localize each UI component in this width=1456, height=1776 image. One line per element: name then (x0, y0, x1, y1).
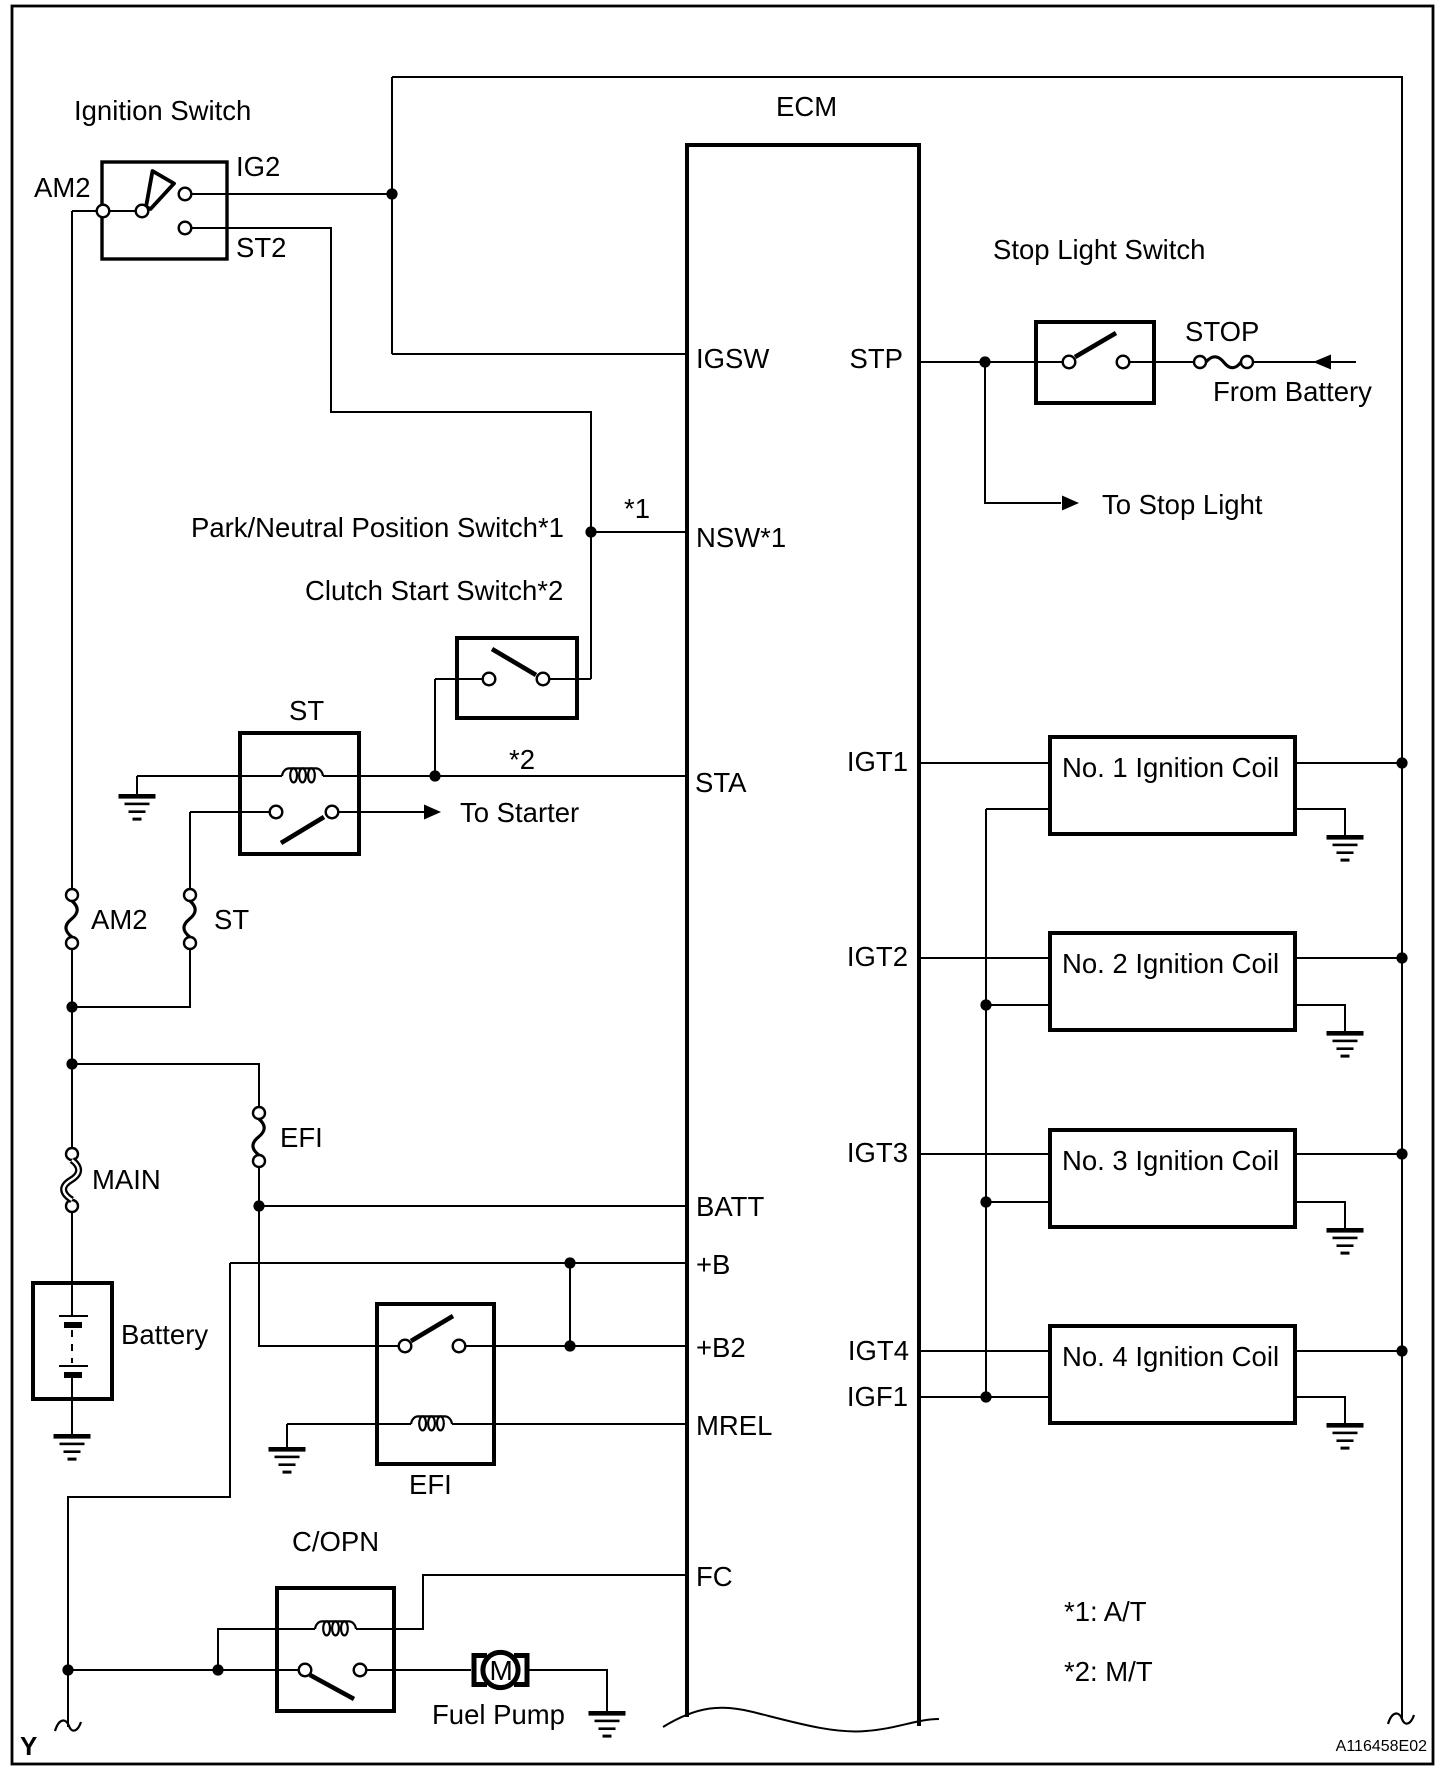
svg-text:A116458E02: A116458E02 (1336, 1738, 1427, 1755)
svg-text:FC: FC (696, 1561, 733, 1592)
svg-text:IGT4: IGT4 (848, 1335, 909, 1366)
ground battery (54, 1434, 91, 1461)
wire IGF1 pin (920, 1396, 1050, 1398)
node +B junction (564, 1257, 575, 1268)
fuse ST (184, 889, 196, 901)
svg-text:MREL: MREL (696, 1410, 772, 1441)
arrow To Starter (424, 805, 441, 820)
terminal C/OPN left circle (299, 1664, 312, 1677)
terminal IG2 circle (179, 188, 192, 201)
wire IGT2 pin (920, 957, 1050, 959)
wire IG2 to node (192, 193, 392, 195)
svg-text:BATT: BATT (696, 1191, 764, 1222)
ignition switch key wedge (146, 171, 174, 209)
wire +B return run (68, 1263, 230, 1727)
wire coil1 lower pin to IGF column (986, 808, 1050, 810)
svg-text:EFI: EFI (409, 1469, 452, 1500)
svg-text:Clutch Start Switch*2: Clutch Start Switch*2 (305, 575, 563, 606)
fuse AM2 (66, 889, 78, 901)
ECM box (687, 145, 919, 1726)
wire fuel pump to ground (529, 1670, 607, 1711)
svg-text:Park/Neutral Position Switch*1: Park/Neutral Position Switch*1 (191, 512, 564, 543)
wire C/OPN coil left lead (218, 1629, 315, 1670)
node bus coil3 (1396, 1148, 1407, 1159)
wire IGT3 pin (920, 1153, 1050, 1155)
wire +B pin (230, 1262, 686, 1264)
connector Y squiggle (55, 1721, 81, 1731)
connector bus squiggle (1388, 1714, 1414, 1724)
ECM wavy bottom (663, 1708, 939, 1732)
ST relay coil (282, 768, 323, 782)
C/OPN relay box (277, 1588, 394, 1711)
wire IGT1 pin (920, 762, 1050, 764)
wire coil1 to bus (1295, 762, 1402, 764)
ST relay blade (281, 817, 324, 843)
wire clutch switch right lead (550, 678, 591, 680)
node bus coil4 (1396, 1345, 1407, 1356)
svg-text:No. 4 Ignition Coil: No. 4 Ignition Coil (1062, 1341, 1279, 1372)
terminal ST2 circle (179, 222, 192, 235)
node BATT junction (253, 1200, 264, 1211)
battery plate short thick bottom (64, 1372, 82, 1378)
wire from battery feed (1253, 361, 1356, 363)
svg-text:ST2: ST2 (236, 232, 286, 263)
svg-text:STOP: STOP (1185, 316, 1259, 347)
clutch switch blade (492, 649, 536, 675)
wire AM2 column (71, 211, 73, 889)
wire BATT node down to EFI relay switch (259, 1206, 399, 1346)
wire STA left segment to ground (137, 775, 282, 777)
wire IGT4 pin (920, 1350, 1050, 1352)
svg-text:Battery: Battery (121, 1319, 208, 1350)
svg-text:IGT3: IGT3 (847, 1137, 908, 1168)
svg-text:IGT2: IGT2 (847, 941, 908, 972)
wire EFI fuse to BATT node (258, 1167, 260, 1206)
ignition coil 4 box (1050, 1326, 1295, 1423)
ground coil2 (1327, 1031, 1364, 1058)
terminal ST relay right circle (326, 806, 339, 819)
battery box (33, 1283, 112, 1399)
wire coil4 to bus (1295, 1350, 1402, 1352)
wire ST relay switch to ST fuse (189, 812, 191, 889)
svg-text:AM2: AM2 (34, 172, 91, 203)
terminal ST relay left circle (270, 806, 283, 819)
fuel pump motor M1 (474, 1656, 487, 1685)
wire FC run (356, 1575, 686, 1629)
node bus coil2 (1396, 952, 1407, 963)
svg-text:IGT1: IGT1 (847, 746, 908, 777)
wire ignition switch internal AM2 to pivot (109, 210, 136, 212)
ground coil3 (1327, 1228, 1364, 1255)
ignition coil 2 box (1050, 933, 1295, 1030)
svg-text:To Starter: To Starter (460, 797, 579, 828)
node STP junction (979, 356, 990, 367)
node fuse junction (66, 1001, 77, 1012)
ground EFI coil (269, 1447, 306, 1474)
wire coil3 lower pin (986, 1201, 1050, 1203)
svg-text:*1: *1 (624, 493, 650, 524)
fuse MAIN fusible link (66, 1148, 78, 1160)
fuse STOP (1194, 356, 1206, 368)
battery plate short thick top (64, 1322, 82, 1328)
svg-text:M: M (490, 1655, 513, 1686)
ST relay box (240, 733, 359, 854)
node IG2/IGSW junction (386, 188, 397, 199)
wire MAIN fuse to battery (71, 1212, 73, 1316)
svg-text:*2: *2 (509, 744, 535, 775)
C/OPN blade (310, 1675, 354, 1699)
node IGF coil4 (980, 1391, 991, 1402)
node +B2 junction (564, 1340, 575, 1351)
wire coil1 ground lead (1295, 809, 1345, 835)
EFI relay coil (411, 1416, 452, 1430)
node C/OPN junction (212, 1664, 223, 1675)
wire AM2 terminal to battery column (72, 210, 97, 212)
arrow to stop light (1062, 496, 1079, 511)
wire MREL pin (452, 1423, 686, 1425)
terminal stop light left circle (1063, 356, 1076, 369)
wire coil3 ground lead (1295, 1202, 1345, 1228)
node NSW junction (585, 526, 596, 537)
svg-text:*2: M/T: *2: M/T (1064, 1656, 1153, 1687)
svg-text:Y: Y (20, 1731, 37, 1761)
wire coil4 ground lead (1295, 1397, 1345, 1423)
wire AM2 fuse to junction (71, 949, 73, 1148)
C/OPN coil (315, 1621, 356, 1635)
svg-text:+B2: +B2 (696, 1332, 746, 1363)
svg-text:ST: ST (214, 904, 249, 935)
wire +B to +B2 link (569, 1263, 571, 1346)
terminal stop light right circle (1117, 356, 1130, 369)
battery plate long top (59, 1315, 88, 1317)
wire clutch switch left lead (435, 678, 482, 680)
svg-text:From Battery: From Battery (1213, 376, 1372, 407)
wire BATT pin (259, 1205, 686, 1207)
wire IGF column (985, 809, 987, 1397)
svg-text:IGSW: IGSW (696, 343, 769, 374)
wire coil3 to bus (1295, 1153, 1402, 1155)
node bus coil1 (1396, 757, 1407, 768)
svg-text:To Stop Light: To Stop Light (1102, 489, 1263, 520)
wire ground stub at ST relay (136, 776, 138, 794)
ground at ST relay (119, 794, 156, 821)
EFI relay blade (411, 1316, 453, 1341)
node bottom-left junction (62, 1664, 73, 1675)
wire STA from coil to ECM (323, 775, 686, 777)
terminal clutch right circle (537, 673, 550, 686)
ignition switch SW1 box (102, 162, 227, 259)
wire EFI branch (72, 1064, 259, 1107)
ground coil4 (1327, 1423, 1364, 1450)
svg-text:IG2: IG2 (236, 151, 280, 182)
wire C/OPN to fuel pump (366, 1669, 471, 1671)
svg-text:Fuel Pump: Fuel Pump (432, 1699, 565, 1730)
wire ST2 run to NSW (192, 228, 591, 679)
node IGF coil3 (980, 1196, 991, 1207)
svg-text:No. 2 Ignition Coil: No. 2 Ignition Coil (1062, 948, 1279, 979)
wire IGSW pin stub (392, 353, 686, 355)
svg-text:STA: STA (695, 767, 747, 798)
svg-text:AM2: AM2 (91, 904, 148, 935)
terminal clutch left circle (483, 673, 496, 686)
wire to stop light (985, 362, 1061, 503)
terminal C/OPN right circle (354, 1664, 367, 1677)
wire bottom feed (68, 1669, 299, 1671)
svg-text:*1: A/T: *1: A/T (1064, 1596, 1147, 1627)
wire MREL left segment to ground (287, 1423, 411, 1425)
svg-text:No. 1 Ignition Coil: No. 1 Ignition Coil (1062, 752, 1279, 783)
wire coil2 ground lead (1295, 1005, 1345, 1031)
svg-text:C/OPN: C/OPN (292, 1526, 379, 1557)
ignition coil 3 box (1050, 1130, 1295, 1227)
node IGF coil2 (980, 999, 991, 1010)
wire battery to ground (71, 1378, 73, 1434)
ground fuel pump (589, 1711, 626, 1738)
wire ST relay switch right lead (338, 811, 428, 813)
terminal AM2 circle (97, 205, 110, 218)
EFI relay box (377, 1304, 494, 1464)
terminal pivot circle (136, 205, 149, 218)
svg-text:+B: +B (696, 1249, 730, 1280)
stop light switch SW3 box (1036, 322, 1154, 403)
wire STP pin (920, 361, 1062, 363)
wire vertical IGSW riser (391, 77, 393, 354)
svg-text:ST: ST (289, 695, 324, 726)
terminal EFI relay left circle (399, 1340, 412, 1353)
svg-text:ECM: ECM (776, 91, 837, 122)
wire coil2 to bus (1295, 957, 1402, 959)
svg-text:STP: STP (850, 343, 903, 374)
wire clutch to STA node (434, 679, 436, 776)
wire NSW*1 pin stub (591, 531, 686, 533)
svg-text:NSW*1: NSW*1 (696, 522, 786, 553)
fuse EFI (253, 1107, 265, 1119)
svg-text:IGF1: IGF1 (847, 1381, 908, 1412)
wire coil2 lower pin (986, 1004, 1050, 1006)
wire ground stub EFI coil (286, 1424, 288, 1447)
battery dashed center (71, 1330, 73, 1363)
wire top bus to coils (392, 77, 1402, 1720)
svg-text:Ignition Switch: Ignition Switch (74, 95, 251, 126)
wire stop light switch to STOP fuse (1130, 361, 1194, 363)
terminal EFI relay right circle (453, 1340, 466, 1353)
battery plate long bottom (59, 1365, 88, 1367)
svg-text:Stop Light Switch: Stop Light Switch (993, 234, 1205, 265)
arrow from battery (1313, 355, 1331, 370)
ignition coil 1 box (1050, 737, 1295, 834)
wire ST relay switch left lead (190, 811, 270, 813)
wire ST fuse to junction (72, 949, 190, 1007)
ground coil1 (1327, 835, 1364, 862)
node EFI branch junction (66, 1058, 77, 1069)
svg-text:No. 3 Ignition Coil: No. 3 Ignition Coil (1062, 1145, 1279, 1176)
svg-text:EFI: EFI (280, 1122, 323, 1153)
node STA junction (429, 770, 440, 781)
wire +B2 pin (465, 1345, 686, 1347)
svg-text:MAIN: MAIN (92, 1164, 161, 1195)
stop light switch blade (1075, 333, 1116, 357)
clutch start switch SW2 box (457, 638, 577, 718)
